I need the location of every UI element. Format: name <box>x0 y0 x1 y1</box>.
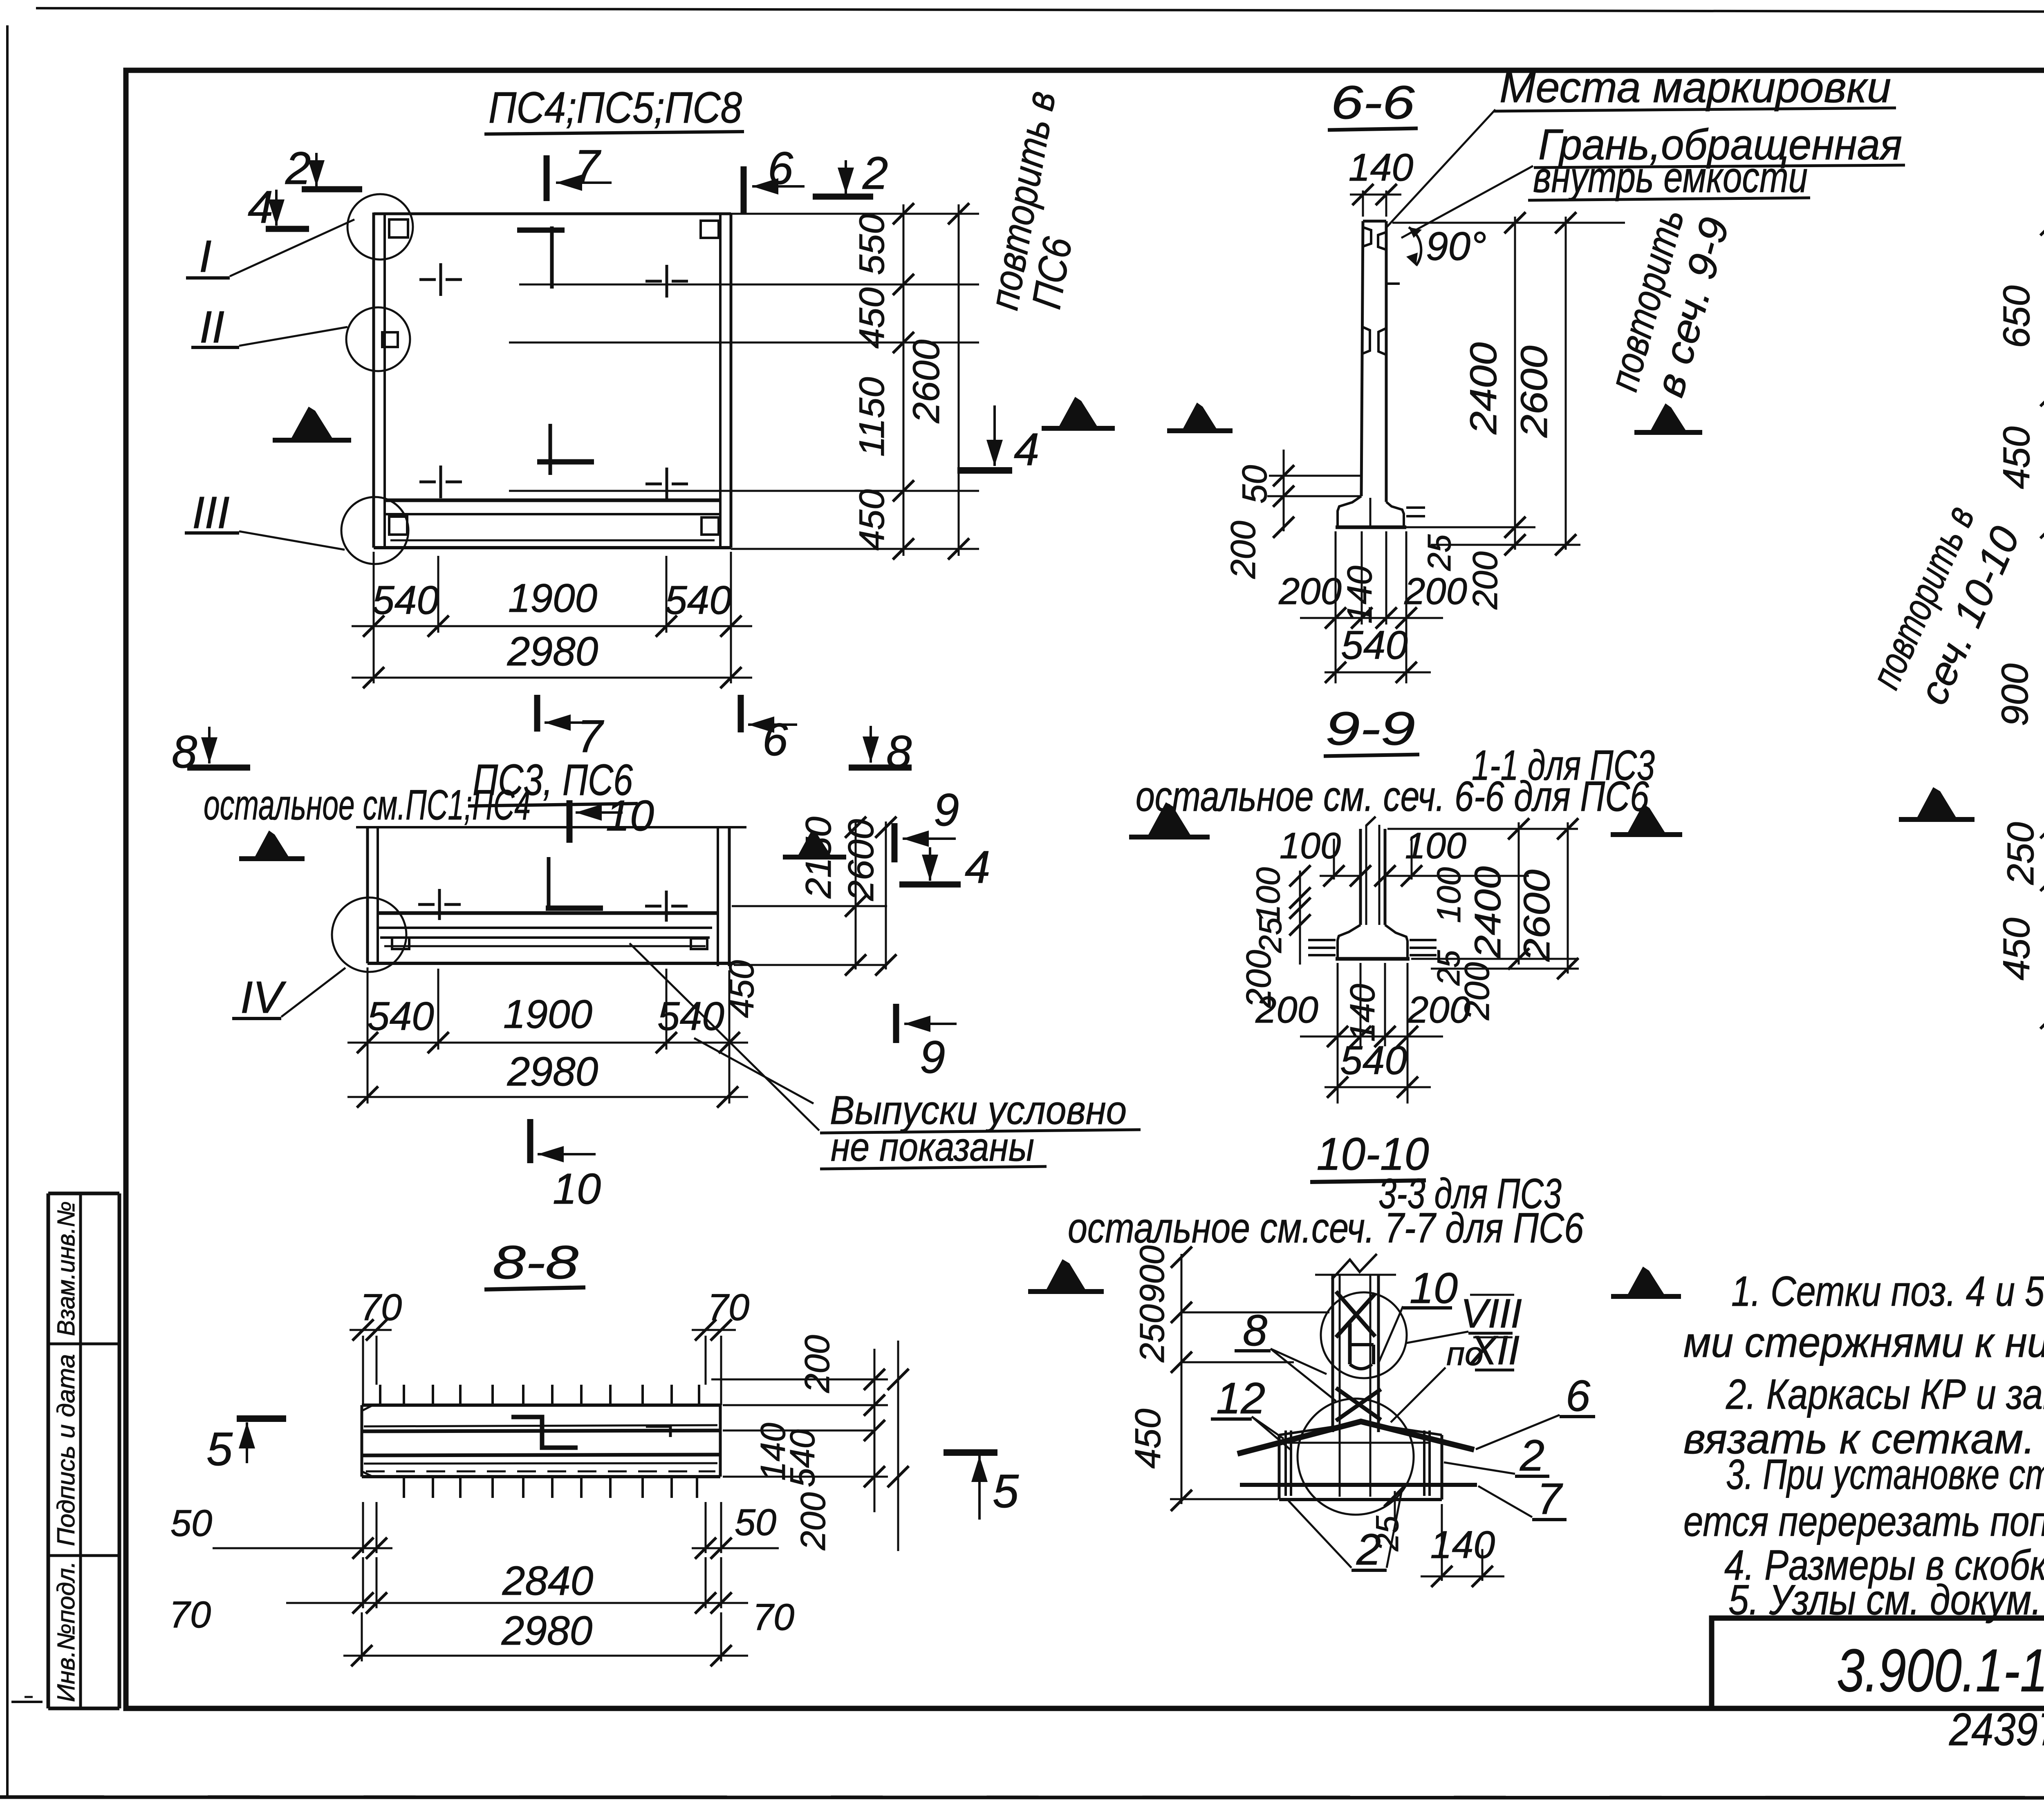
view1 right extensions <box>731 213 979 215</box>
svg-text:2400: 2400 <box>1463 342 1504 435</box>
svg-text:140: 140 <box>1340 566 1379 624</box>
svg-text:24397-01 7: 24397-01 7 <box>1949 1704 2044 1755</box>
svg-text:7: 7 <box>577 711 604 762</box>
dim 2980 <box>352 677 752 679</box>
dim 70 top-right <box>705 1336 707 1385</box>
svg-text:I: I <box>199 231 212 282</box>
section mark 5 right <box>944 1449 997 1456</box>
svg-text:3. При установке строповочных: 3. При установке строповочных петель доп… <box>1726 1451 2044 1498</box>
section mark 6 top <box>738 695 744 732</box>
section mark 4 mid <box>993 405 996 466</box>
8-8 body outline <box>362 1404 720 1407</box>
svg-text:540: 540 <box>665 578 732 622</box>
svg-text:1. Сетки поз. 4 и 5 установить: 1. Сетки поз. 4 и 5 установить анкерующи… <box>1731 1268 2044 1315</box>
paper left edge <box>6 25 9 1797</box>
svg-text:2600: 2600 <box>1513 346 1555 438</box>
svg-text:Инв.№подл.: Инв.№подл. <box>52 1561 80 1702</box>
svg-text:200: 200 <box>1466 551 1505 610</box>
slab strip lines <box>378 911 718 915</box>
detail circle IV <box>332 898 406 972</box>
8-8 inner layers <box>364 1425 717 1426</box>
dim 2980 8-8 <box>361 1612 363 1661</box>
corner notch details <box>389 219 408 237</box>
svg-text:II: II <box>199 302 224 352</box>
detail circle I <box>347 194 413 260</box>
svg-text:540: 540 <box>657 994 724 1039</box>
9-9 footing <box>1338 925 1360 957</box>
svg-text:550: 550 <box>852 214 892 275</box>
panel outline ПС3 view <box>356 826 746 828</box>
anchor detail upper <box>1348 1323 1352 1364</box>
svg-text:250: 250 <box>2000 822 2042 885</box>
svg-text:6-6: 6-6 <box>1331 76 1415 129</box>
svg-text:2600: 2600 <box>840 819 881 901</box>
6-6 footing <box>1338 496 1361 526</box>
svg-text:200: 200 <box>1404 571 1467 612</box>
level triangle right of ПС3 <box>797 830 832 857</box>
6-6 right extensions <box>1392 222 1625 224</box>
small tick left margin <box>11 1701 43 1703</box>
ПС3 right dims <box>732 905 887 907</box>
svg-text:5: 5 <box>993 1465 1019 1518</box>
rotated note повторить в сеч.10-10 <box>1862 499 2029 715</box>
svg-text:1900: 1900 <box>503 992 592 1036</box>
section mark 9 lower right <box>893 1004 899 1043</box>
svg-text:10: 10 <box>606 792 654 840</box>
section mark 7 top <box>534 695 540 732</box>
footing rebar stubs <box>1308 939 1336 941</box>
detail circle upper 10-10 <box>1321 1292 1407 1378</box>
svg-text:450: 450 <box>722 960 761 1018</box>
svg-text:9-9: 9-9 <box>1325 703 1415 755</box>
svg-text:2980: 2980 <box>507 1049 598 1095</box>
ПС3 bottom extensions <box>367 967 369 1104</box>
dim 2600 <box>1565 217 1567 550</box>
svg-text:100: 100 <box>1250 867 1287 923</box>
svg-text:25: 25 <box>1369 1515 1405 1551</box>
transverse ticks above <box>379 1385 381 1405</box>
svg-text:25: 25 <box>1421 534 1457 571</box>
svg-text:10: 10 <box>1410 1264 1458 1312</box>
svg-text:6: 6 <box>1566 1371 1591 1420</box>
svg-text:100: 100 <box>1280 826 1341 866</box>
left stamp column frame <box>47 1193 50 1708</box>
svg-text:450: 450 <box>1996 426 2037 489</box>
9-9 right dim stack <box>1518 822 1520 965</box>
svg-text:650: 650 <box>1996 285 2037 348</box>
svg-text:7: 7 <box>1537 1474 1563 1523</box>
10-10 left dim stack <box>1181 1254 1183 1504</box>
title block frame <box>1712 1618 2044 1708</box>
svg-text:450: 450 <box>852 287 892 349</box>
svg-text:остальное см.сеч. 7-7 для ПС6: остальное см.сеч. 7-7 для ПС6 <box>1068 1204 1584 1252</box>
svg-text:900: 900 <box>1133 1245 1171 1303</box>
svg-text:70: 70 <box>753 1596 794 1638</box>
svg-text:200: 200 <box>794 1492 833 1551</box>
svg-text:70: 70 <box>708 1287 749 1328</box>
svg-text:1900: 1900 <box>508 575 597 620</box>
break mark top <box>1315 1274 1396 1276</box>
9-9 top dims 100 100 <box>1333 839 1335 880</box>
dim 2600 <box>958 204 960 556</box>
svg-text:2150: 2150 <box>798 817 838 899</box>
svg-text:200: 200 <box>1407 989 1470 1031</box>
dim 70 top-left <box>362 1336 364 1405</box>
dim 140 10-10 <box>1441 1504 1443 1581</box>
svg-text:8-8: 8-8 <box>493 1236 578 1289</box>
6-6 bottom dims 200/140/200 <box>1335 531 1337 683</box>
svg-text:540: 540 <box>372 578 439 622</box>
centering cross marks <box>419 278 436 281</box>
svg-text:5. Узлы см. докум. 10.00.: 5. Узлы см. докум. 10.00. <box>1728 1576 2044 1624</box>
marking notches middle <box>1362 327 1370 354</box>
svg-text:Взам.инв.№: Взам.инв.№ <box>52 1201 80 1336</box>
6-6 column outline <box>1361 221 1363 496</box>
svg-text:450: 450 <box>1127 1409 1168 1469</box>
svg-text:ми стержнями к нижнему торцу п: ми стержнями к нижнему торцу панели. <box>1683 1319 2044 1366</box>
section mark 9 upper right <box>892 823 898 862</box>
svg-text:5: 5 <box>206 1423 233 1475</box>
detail circle lower 10-10 <box>1298 1399 1414 1515</box>
svg-text:2400: 2400 <box>1468 866 1508 959</box>
svg-text:70: 70 <box>169 1594 211 1636</box>
svg-text:4: 4 <box>1014 424 1039 475</box>
svg-text:2600: 2600 <box>1517 870 1558 962</box>
dim 140 top <box>1362 190 1364 217</box>
svg-text:6: 6 <box>768 143 793 194</box>
dim 540/1900/540 ПС3 <box>347 1042 748 1044</box>
svg-text:2840: 2840 <box>502 1558 593 1604</box>
svg-text:2. Каркасы КР и закладные изде: 2. Каркасы КР и закладные изделия МН при… <box>1726 1371 2044 1418</box>
svg-text:Подпись и дата: Подпись и дата <box>52 1354 80 1546</box>
section mark 10 bottom <box>527 1119 533 1163</box>
detail circle II <box>346 307 410 371</box>
dim 2980 ПС3 <box>347 1096 748 1098</box>
level triangles near 10-10 <box>1045 1259 1087 1292</box>
svg-text:12: 12 <box>1216 1373 1265 1423</box>
9-9 bottom dims <box>1337 963 1339 1104</box>
svg-text:XII: XII <box>1469 1327 1520 1373</box>
marking notches top <box>1363 227 1371 246</box>
8-8 right dim stack <box>711 1379 888 1381</box>
svg-text:6: 6 <box>762 714 788 765</box>
level triangle view1 <box>290 407 334 440</box>
svg-text:140: 140 <box>1349 146 1414 189</box>
axis T-mark ПС3 <box>547 857 551 911</box>
svg-text:90°: 90° <box>1426 224 1486 269</box>
footing stirrups <box>1284 1430 1287 1496</box>
dim 550/450/1150/450 <box>903 204 905 556</box>
axis T-mark top <box>517 228 565 233</box>
dim 540 6-6 <box>1325 672 1431 674</box>
svg-text:IV: IV <box>240 972 287 1023</box>
section mark 4 right <box>929 847 931 881</box>
rebar stubs right <box>1406 506 1425 509</box>
svg-text:450: 450 <box>852 489 892 551</box>
9-9 column <box>1359 829 1362 925</box>
svg-text:9: 9 <box>920 1032 945 1083</box>
tick right face <box>1386 282 1400 285</box>
Z-bar detail <box>511 1417 578 1448</box>
svg-text:200: 200 <box>1255 989 1318 1031</box>
section mark 6 top <box>741 166 747 214</box>
paper top edge <box>36 8 2044 12</box>
10-10 footing <box>1278 1435 1281 1500</box>
axis T-mark bottom <box>537 459 594 465</box>
svg-text:7: 7 <box>574 141 601 192</box>
section mark 7 top <box>544 155 550 201</box>
svg-text:50: 50 <box>170 1502 212 1544</box>
svg-text:3.900.1-10.2-3 -01.00: 3.900.1-10.2-3 -01.00 <box>1837 1637 2044 1704</box>
svg-text:2: 2 <box>1520 1430 1544 1480</box>
svg-text:остальное см. сеч. 6-6 для ПС6: остальное см. сеч. 6-6 для ПС6 <box>1136 773 1649 820</box>
section mark 10 <box>567 800 573 843</box>
svg-text:140: 140 <box>1430 1523 1495 1567</box>
svg-text:ется перерезать поперечный сте: ется перерезать поперечный стержень сетк… <box>1683 1498 2044 1545</box>
level triangle left of ПС3 <box>254 830 290 859</box>
svg-text:4: 4 <box>248 181 273 233</box>
centering crosses ПС3 <box>418 903 435 906</box>
svg-text:200: 200 <box>1224 521 1263 579</box>
svg-text:2980: 2980 <box>507 629 598 674</box>
svg-text:250: 250 <box>1133 1304 1171 1363</box>
diagonal rebar in column <box>1336 1292 1375 1336</box>
dim 540/1900/540 <box>352 625 752 627</box>
level triangles near 9-9 <box>1147 802 1192 837</box>
svg-text:450: 450 <box>1996 918 2037 980</box>
svg-text:540: 540 <box>1340 1038 1407 1083</box>
dim 50 right <box>705 1502 707 1553</box>
svg-text:2: 2 <box>862 148 888 199</box>
svg-text:10: 10 <box>553 1165 601 1213</box>
panel outline plan view <box>372 213 375 548</box>
panel bottom ledge lines <box>385 499 720 502</box>
bottom plate pos7 <box>1240 1483 1477 1487</box>
9-9 left dim stack <box>1299 871 1301 965</box>
level triangle left of 7-7 <box>1916 787 1957 819</box>
svg-text:9: 9 <box>934 784 959 835</box>
svg-text:4: 4 <box>965 842 990 893</box>
svg-text:100: 100 <box>1405 826 1466 866</box>
svg-text:200: 200 <box>1278 571 1342 612</box>
svg-text:200: 200 <box>798 1335 837 1393</box>
svg-text:50: 50 <box>1235 465 1274 504</box>
svg-text:1150: 1150 <box>852 377 892 457</box>
svg-text:III: III <box>192 488 230 538</box>
rotated note повторить в сеч.9-9 <box>1600 201 1738 407</box>
10-10 column <box>1331 1275 1334 1432</box>
svg-text:25: 25 <box>1252 917 1288 953</box>
svg-text:140: 140 <box>1343 984 1382 1042</box>
svg-text:остальное см.ПС1;ПС4: остальное см.ПС1;ПС4 <box>204 781 531 829</box>
svg-text:внутрь емкости: внутрь емкости <box>1533 153 1808 201</box>
X cross lower <box>1336 1388 1381 1420</box>
dim 70 2840 70 <box>362 1557 364 1608</box>
svg-text:не показаны: не показаны <box>831 1124 1034 1169</box>
hat diagonals pos6 <box>1237 1421 1474 1454</box>
slab hook details <box>392 938 409 949</box>
svg-text:2: 2 <box>285 143 311 194</box>
dim 2400 <box>1514 217 1516 550</box>
view1 bottom extensions <box>373 552 375 683</box>
transverse ticks below <box>403 1477 405 1498</box>
level triangles near 6-6 <box>1058 397 1098 428</box>
leaders to выпуски note <box>630 943 819 1130</box>
svg-text:2600: 2600 <box>905 340 947 424</box>
rotated note повторить в ПС6 <box>981 88 1105 320</box>
svg-text:900: 900 <box>1994 663 2036 726</box>
svg-text:Места маркировки: Места маркировки <box>1499 63 1891 112</box>
dim 50 left <box>362 1502 364 1553</box>
detail circle III <box>341 497 408 564</box>
svg-text:540: 540 <box>1341 622 1408 667</box>
svg-text:2980: 2980 <box>501 1608 592 1654</box>
6-6 left dims <box>1269 475 1361 477</box>
svg-text:50: 50 <box>735 1502 776 1543</box>
svg-text:70: 70 <box>360 1287 402 1328</box>
paper bottom edge <box>0 1797 2044 1798</box>
svg-text:ПС4;ПС5;ПС8: ПС4;ПС5;ПС8 <box>489 83 742 132</box>
svg-text:540: 540 <box>783 1429 822 1487</box>
svg-text:540: 540 <box>367 994 434 1039</box>
